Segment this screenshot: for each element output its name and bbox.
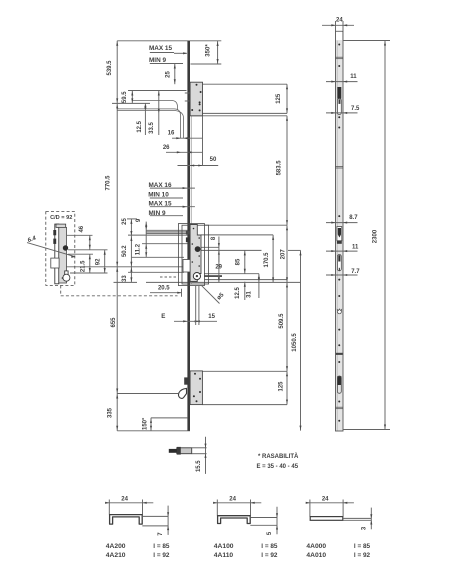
dashed connector vertical [60, 285, 62, 295]
svg-text:11.2: 11.2 [135, 243, 141, 255]
dimension 150 degrees [151, 417, 188, 419]
left column 335 [116, 394, 118, 431]
85 dim bottom line [204, 273, 259, 275]
notch top line [132, 256, 184, 258]
line y=100.4 with corner arc [132, 100, 177, 110]
throw pin dark band [177, 447, 181, 455]
svg-text:4A100: 4A100 [214, 543, 234, 550]
left notch of main body [183, 260, 190, 273]
dimension 92 side view [104, 250, 106, 273]
deadbolt slot on strip [337, 255, 341, 271]
svg-text:350*: 350* [206, 44, 212, 57]
latch dark wedge [338, 228, 341, 238]
2300 bottom extension line [343, 429, 390, 431]
bottom deviator housing [190, 371, 202, 405]
right dimension column 509.5 [286, 282, 288, 371]
svg-text:4A200: 4A200 [106, 543, 126, 550]
top deviator housing [190, 82, 202, 116]
line y=90.5 rod top [128, 90, 187, 92]
strip hole 2 [338, 65, 340, 67]
right dimension column 125 bottom [286, 371, 288, 404]
svg-text:1050.5: 1050.5 [292, 333, 298, 352]
dimension 21.5 [89, 254, 91, 273]
baseline y=430.8 [117, 430, 190, 432]
main body secondary outline box [182, 225, 209, 284]
svg-text:7.5: 7.5 [351, 106, 360, 112]
tick row 8.7 with label [326, 222, 358, 224]
underline of MAX 15 with arrow to faceplate [150, 52, 174, 54]
tick row 7.7 with label [326, 274, 358, 276]
line at faceplate joint under top deviator [191, 115, 288, 117]
side view hub [63, 245, 68, 250]
left column 770.5 [116, 103, 118, 266]
hub small lines [199, 246, 219, 248]
svg-text:l = 92: l = 92 [261, 552, 278, 559]
dimension 33.5 [158, 91, 160, 136]
profile 4A000 height dimension lines [343, 517, 371, 519]
svg-text:25: 25 [166, 71, 172, 78]
svg-text:150°: 150° [143, 417, 149, 430]
svg-text:46: 46 [79, 225, 85, 232]
profile 4A000 cross-section shape [310, 517, 343, 521]
svg-text:29: 29 [215, 265, 222, 271]
tick row 7.5 with label [326, 112, 358, 114]
master bottom line y=282.4 [114, 281, 138, 283]
svg-text:24: 24 [121, 497, 128, 503]
left column 539.5 [116, 41, 118, 104]
strip hole 10 [338, 361, 340, 363]
dimension line 350* [217, 41, 219, 64]
dimension 15.5 [205, 437, 207, 474]
bottom deviator bottom line to right column [202, 404, 287, 406]
svg-text:11: 11 [352, 245, 359, 251]
side view lock case body [59, 227, 67, 283]
svg-text:l = 85: l = 85 [261, 543, 278, 550]
dimension 33 [130, 267, 132, 283]
svg-text:335: 335 [107, 407, 113, 418]
top extension line of lock assembly [117, 40, 221, 42]
tick row 11 lower with label [326, 250, 358, 252]
dimension 25 top [174, 64, 176, 85]
svg-text:125: 125 [276, 93, 282, 104]
bottom deviator top line to right column [202, 370, 287, 372]
strip hole 8 [338, 329, 340, 331]
rod outer line with corner arc [117, 109, 180, 139]
svg-text:C/D = 92: C/D = 92 [50, 215, 72, 221]
hook bolt dark on strip [337, 87, 341, 99]
dimension 50.2 [130, 236, 132, 267]
strip hole 12 [338, 420, 340, 422]
strip hole 3 [338, 116, 340, 118]
main body step top line to 170.5 column [201, 234, 273, 236]
svg-text:l = 92: l = 92 [354, 552, 371, 559]
deadbolt protruding left dark mark [186, 237, 190, 242]
profile 4A200 cross-section shape [110, 515, 143, 525]
top deviator upper line to right dim column [203, 83, 288, 85]
dimension 85 [244, 250, 246, 273]
right dimension column 207 [286, 225, 288, 282]
svg-text:125: 125 [279, 381, 285, 392]
svg-text:* RASABILITÀ: * RASABILITÀ [258, 453, 299, 460]
side view top cap [56, 224, 66, 227]
right dimension column 125 top [286, 84, 288, 113]
svg-text:21.5: 21.5 [81, 260, 87, 272]
svg-text:24: 24 [336, 18, 343, 24]
svg-text:85: 85 [235, 258, 241, 265]
dimension 8 right of hub [218, 237, 220, 263]
left column 655 [116, 267, 118, 394]
svg-text:4A110: 4A110 [214, 552, 234, 559]
diameter 5 leader line [202, 286, 220, 304]
dimension 31 [258, 274, 260, 298]
latch window on strip [337, 227, 342, 241]
dimension 11.2 [145, 244, 147, 258]
tick row 11 top with label [326, 81, 358, 83]
svg-text:8.7: 8.7 [349, 215, 358, 221]
svg-text:7.7: 7.7 [351, 269, 360, 275]
strip inner shading line [336, 41, 338, 431]
cylinder circle on main body [193, 273, 200, 280]
svg-text:12.5: 12.5 [235, 287, 241, 299]
svg-text:31: 31 [246, 291, 252, 298]
central faceplate edge thick line [187, 41, 190, 431]
dimension line E / 15 [174, 320, 217, 322]
throw pin body [177, 448, 192, 454]
side view strike bits dark [53, 230, 56, 235]
strip joint 2 [336, 166, 344, 168]
svg-text:25: 25 [122, 218, 128, 225]
svg-text:59.5: 59.5 [122, 91, 128, 103]
strip hole 11 [338, 401, 340, 403]
cylinder axis extension lines down [195, 286, 197, 325]
rod inner line with corner arc [117, 110, 183, 138]
line row y=243.7 [142, 243, 190, 245]
long reference line y=266.8 from side view to main body [62, 266, 184, 268]
svg-text:4A010: 4A010 [306, 552, 326, 559]
latch protruding left dark mark [186, 231, 190, 235]
svg-text:655: 655 [111, 317, 117, 328]
line from left column to hook y=393.5 [117, 393, 178, 395]
underline MAX 15 with arrow [150, 206, 195, 208]
svg-text:l = 85: l = 85 [153, 543, 170, 550]
svg-text:MAX 15: MAX 15 [149, 45, 173, 52]
dashed stub y=277 left of body [160, 276, 178, 278]
side view tick rows [67, 234, 93, 236]
main body top line to right dim column [205, 224, 288, 226]
svg-text:207: 207 [280, 249, 286, 260]
profile 4A100 height dimension lines [250, 517, 277, 519]
svg-text:l = 92: l = 92 [153, 552, 170, 559]
svg-text:16: 16 [168, 130, 175, 136]
underline MIN 9 [150, 215, 183, 217]
svg-text:E = 35 - 40 - 45: E = 35 - 40 - 45 [257, 464, 299, 470]
svg-text:2300: 2300 [373, 229, 379, 243]
strip joint 3 [336, 406, 344, 408]
svg-text:11: 11 [350, 74, 357, 80]
svg-text:539.5: 539.5 [107, 60, 113, 76]
small rod attachment ticks on faceplate [185, 92, 190, 94]
strip hole 4 [338, 127, 340, 129]
svg-text:MIN 10: MIN 10 [148, 191, 169, 198]
svg-text:12.5: 12.5 [137, 120, 143, 132]
strip hole 7 [338, 295, 340, 297]
dimension 46 [89, 235, 91, 250]
body screw holes [193, 228, 195, 230]
hook lever at bottom deviator [178, 388, 186, 398]
dashed connector horizontal to main view [61, 295, 178, 297]
underline MIN 10 [150, 197, 183, 199]
svg-text:15.5: 15.5 [196, 460, 202, 472]
svg-text:170.5: 170.5 [264, 252, 270, 268]
svg-text:33: 33 [122, 275, 128, 282]
side view left notch [51, 258, 59, 268]
dimension 9 small column [145, 222, 147, 244]
dimension 12.5 top area [144, 103, 146, 135]
latch upper line pair [146, 229, 190, 231]
vertical extension from deviator right edge down to 50 dim [202, 116, 204, 166]
svg-text:15: 15 [208, 314, 215, 320]
svg-text:50: 50 [210, 157, 217, 163]
bottom rod slot on strip [337, 376, 341, 385]
svg-text:E: E [161, 313, 165, 320]
dimension 2300 [384, 41, 386, 430]
svg-text:26: 26 [163, 145, 170, 151]
dimension 170.5 [272, 235, 274, 283]
svg-text:20.5: 20.5 [158, 285, 170, 291]
side view faceplate strip [55, 224, 59, 284]
line y=279.6 to right column [205, 279, 288, 281]
dimension 29 [218, 250, 220, 282]
strip joint dark marks under latch [337, 241, 342, 244]
pin extension lines [192, 447, 207, 449]
2300 top extension line [343, 40, 390, 42]
strip top white cap section [336, 32, 342, 40]
svg-text:4A000: 4A000 [306, 543, 326, 550]
dashed enclosure box of side view [46, 212, 75, 286]
line row y=235.3 left of body [128, 234, 201, 236]
dimension 25 mid [130, 219, 132, 236]
underline MAX 16 with arrow [150, 187, 195, 189]
svg-text:92: 92 [96, 258, 102, 265]
main body outer outline box [178, 224, 204, 286]
underline of MIN 9 top [150, 63, 183, 65]
profile 4A200 height dimension lines [142, 515, 168, 517]
strip joint 1 [336, 56, 344, 58]
tick row y=103.4 [112, 102, 150, 104]
cylinder axis thick line [204, 275, 222, 277]
cylinder keyhole on strip [337, 309, 341, 314]
dimension 1050.5 column [300, 250, 302, 430]
strip hole 9 [338, 344, 340, 346]
svg-text:509.5: 509.5 [279, 313, 285, 329]
strip hole 6 [338, 279, 340, 281]
throw pin black tip [169, 449, 177, 453]
dimension 59.5 [131, 91, 133, 104]
dimension 12.5 lower right [244, 282, 246, 300]
hub axis line [199, 249, 262, 251]
svg-text:24: 24 [229, 497, 236, 503]
rod joint left of faceplate [184, 377, 187, 384]
tick row y=218.9 [127, 218, 137, 220]
svg-text:MIN 9: MIN 9 [149, 57, 166, 64]
svg-text:33.5: 33.5 [149, 122, 155, 134]
strip joint dark band [336, 353, 343, 355]
handle hub dark square [195, 246, 201, 252]
main body gray plate [190, 225, 201, 282]
tick at bottom of 350* dim [191, 63, 222, 65]
screw holes of top deviator [196, 84, 198, 86]
svg-text:l = 85: l = 85 [354, 543, 371, 550]
right dimension column 583.5 [286, 116, 288, 225]
slot below hook bolt [337, 99, 341, 115]
profile 4A100 cross-section shape [218, 516, 251, 524]
faceplate strip front view [336, 31, 344, 431]
svg-text:583.5: 583.5 [277, 160, 283, 176]
thin companion line right of faceplate [190, 82, 192, 284]
top deviator lower line to right dim column [191, 112, 288, 114]
screw holes of bottom deviator [194, 373, 196, 375]
svg-text:4A210: 4A210 [106, 552, 126, 559]
side view cylinder [65, 271, 68, 276]
svg-text:24: 24 [322, 497, 329, 503]
side view small dot near cylinder [62, 277, 64, 279]
notch bottom line [128, 271, 184, 273]
svg-text:770.5: 770.5 [105, 175, 111, 191]
strip hole top [338, 44, 340, 46]
svg-text:50.2: 50.2 [122, 245, 128, 257]
strip hole 5 [338, 215, 340, 217]
